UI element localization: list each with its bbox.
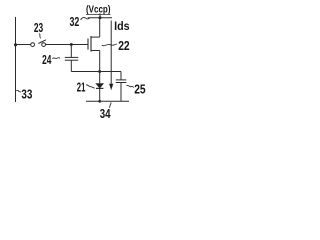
current arrow Ids head [110, 84, 113, 89]
wire gate segment [46, 44, 88, 46]
svg-text:Ids: Ids [114, 19, 130, 33]
node Vccp junction dot [99, 16, 102, 19]
transistor Q22 channel bar [90, 36, 92, 52]
wire switch input segment [16, 44, 31, 46]
leader squiggle for 32 [81, 18, 90, 20]
wire drain vertical [99, 18, 101, 37]
transistor Q22 source lead [91, 50, 100, 52]
node junction dot at capacitor 24 tap [70, 43, 73, 46]
leader squiggle for 34 [110, 102, 111, 108]
leader squiggle for 33 [16, 91, 21, 93]
wire Vccp lead [99, 13, 101, 17]
svg-text:21: 21 [77, 80, 86, 94]
wire diode anode lead [99, 72, 101, 84]
svg-text:22: 22 [118, 39, 130, 53]
leader squiggle for 21 [86, 85, 95, 88]
capacitor C25 bottom plate [116, 82, 127, 84]
leader squiggle for 24 [52, 58, 60, 59]
capacitor C24 top plate [65, 56, 78, 58]
svg-text:(Vccp): (Vccp) [86, 5, 111, 16]
wire node line to capacitor 25 [71, 71, 121, 73]
svg-text:32: 32 [70, 15, 80, 29]
node junction dot on ground rail [98, 100, 101, 103]
switch 23 left contact [31, 43, 35, 47]
svg-text:24: 24 [42, 53, 51, 67]
switch 23 right contact [42, 43, 46, 47]
wire bottom ground rail 34 [86, 100, 129, 102]
transistor Q22 gate bar [87, 39, 89, 50]
diode D21 cathode bar [96, 87, 103, 89]
svg-text:34: 34 [100, 107, 111, 120]
label (Vccp) underline [86, 13, 111, 15]
capacitor C25 top plate [116, 79, 127, 81]
svg-text:33: 33 [21, 88, 32, 102]
node junction dot on left rail [14, 43, 17, 46]
wire capacitor 24 lower lead [70, 60, 72, 71]
wire capacitor 25 upper lead [120, 72, 122, 80]
leader squiggle for 22 [102, 44, 117, 46]
wire left vertical rail 33 [15, 17, 17, 102]
current arrow Ids line [110, 21, 112, 85]
node junction dot at source node [98, 70, 101, 73]
transistor Q22 drain lead [91, 36, 100, 38]
diode D21 triangle [96, 84, 103, 88]
leader squiggle for 23 [39, 34, 41, 39]
svg-text:23: 23 [34, 21, 43, 35]
wire source vertical [99, 51, 101, 72]
wire capacitor 24 upper lead [70, 45, 72, 58]
wire capacitor 25 lower lead [120, 83, 122, 102]
wire top supply rail [88, 17, 112, 19]
svg-text:25: 25 [134, 82, 145, 96]
capacitor C24 bottom plate [65, 59, 78, 61]
switch 23 lever [38, 40, 46, 44]
leader squiggle for 25 [127, 85, 134, 87]
wire diode cathode lead [99, 88, 101, 101]
